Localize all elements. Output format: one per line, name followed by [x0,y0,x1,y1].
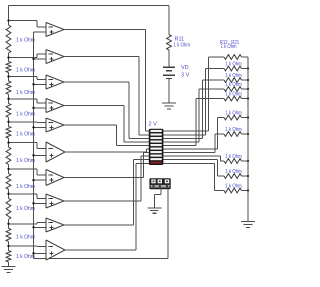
svg-text:1 k Ohm: 1 k Ohm [225,127,242,133]
svg-text:1 k Ohm: 1 k Ohm [16,112,35,118]
svg-text:3 V: 3 V [181,73,190,79]
svg-text:1 k Ohm: 1 k Ohm [225,154,242,160]
svg-text:1 k Ohm: 1 k Ohm [16,234,35,240]
svg-text:1 k Ohm: 1 k Ohm [225,61,242,67]
svg-text:1 k Ohm: 1 k Ohm [174,43,191,49]
svg-text:1 k Ohm: 1 k Ohm [225,91,242,97]
svg-text:1 k Ohm: 1 k Ohm [16,68,35,74]
svg-text:1 k Ohm: 1 k Ohm [16,206,35,212]
svg-text:1 k Ohm: 1 k Ohm [225,82,242,88]
svg-text:1 k Ohm: 1 k Ohm [225,73,242,79]
svg-text:2 V: 2 V [149,121,158,127]
svg-text:1 k Ohm: 1 k Ohm [221,44,237,50]
svg-text:1 k Ohm: 1 k Ohm [16,254,35,260]
svg-text:1 k Ohm: 1 k Ohm [225,183,242,189]
svg-text:VD: VD [181,65,189,71]
svg-text:1 k Ohm: 1 k Ohm [16,90,35,96]
svg-text:1 k Ohm: 1 k Ohm [225,169,242,175]
svg-text:1 k Ohm: 1 k Ohm [225,110,242,116]
svg-text:1 k Ohm: 1 k Ohm [16,184,35,190]
svg-text:1 k Ohm: 1 k Ohm [16,131,35,137]
svg-text:1 k Ohm: 1 k Ohm [16,38,35,44]
svg-text:1 k Ohm: 1 k Ohm [16,158,35,164]
